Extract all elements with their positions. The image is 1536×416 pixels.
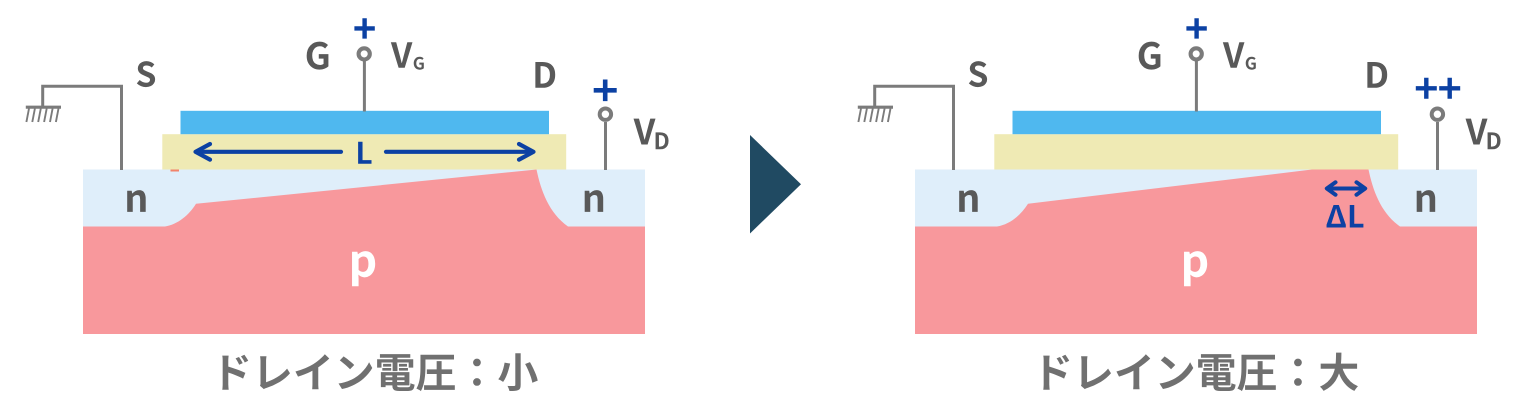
gate terminal circle (1191, 48, 1202, 59)
source terminal label S (969, 61, 987, 87)
caption (222, 353, 537, 391)
ground symbol (26, 107, 61, 122)
drain wire (604, 122, 607, 170)
drain wire (1436, 122, 1439, 170)
channel length label L (358, 142, 371, 164)
source wire (875, 86, 954, 170)
channel sliver (171, 170, 180, 172)
source wire (43, 86, 122, 170)
gate wire (363, 60, 366, 111)
pinch-off delta-L arrow (1327, 182, 1365, 194)
drain plus sign (594, 80, 617, 102)
drain label D (535, 62, 555, 88)
gate label G (1139, 42, 1161, 70)
source terminal label S (137, 61, 155, 87)
drain terminal circle (1432, 109, 1443, 120)
drain plus plus signs (1416, 78, 1460, 99)
transition arrow (750, 135, 801, 234)
source n region label (959, 190, 978, 212)
pinch-off label delta-L (1327, 205, 1364, 228)
gate oxide (yellow) (162, 134, 566, 169)
p substrate with depletion wedge (83, 170, 645, 335)
n-type band (915, 170, 1477, 227)
gate wire (1195, 60, 1198, 111)
drain label D (1367, 62, 1387, 88)
gate plus sign (1186, 18, 1206, 38)
channel length L arrow (196, 144, 534, 160)
gate metal (blue) (1013, 111, 1382, 134)
gate terminal circle (359, 48, 370, 59)
drain terminal circle (600, 109, 611, 120)
gate oxide (yellow) (994, 134, 1398, 169)
p substrate label (352, 251, 375, 286)
n-type band (83, 170, 645, 227)
drain voltage label VD (634, 119, 656, 145)
gate metal (blue) (181, 111, 550, 134)
gate voltage label VG (391, 42, 413, 68)
drain voltage label VD (1466, 119, 1488, 145)
ground symbol (858, 107, 893, 122)
gate label G (307, 42, 329, 70)
gate voltage label VG (1223, 42, 1245, 68)
gate plus sign (354, 18, 374, 38)
drain n region label (1417, 190, 1436, 212)
p substrate with depletion wedge (915, 170, 1477, 335)
drain n region label (585, 190, 604, 212)
caption (1043, 353, 1358, 391)
source n region label (127, 190, 146, 212)
p substrate label (1184, 251, 1207, 286)
